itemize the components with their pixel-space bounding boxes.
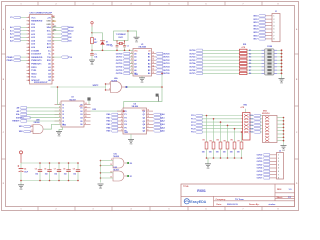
port A3 (CN1 left): [10, 36, 26, 39]
svg-text:RXD1: RXD1: [31, 67, 37, 69]
node reset rail junctions: [91, 49, 103, 51]
op-amp U4 labels: [124, 102, 146, 133]
port OUT23 (J2 pin 4): [257, 163, 279, 166]
svg-text:2: 2: [56, 209, 57, 211]
svg-text:18: 18: [153, 52, 155, 54]
port QA4 (U4 right): [153, 126, 165, 129]
svg-text:WR/TF: WR/TF: [93, 85, 100, 87]
resistor RN1-5: [240, 66, 262, 69]
wire node to diode top: [92, 33, 103, 41]
svg-text:OUT20: OUT20: [189, 50, 195, 52]
node reset-top junction: [91, 32, 93, 34]
svg-text:32: 32: [52, 44, 54, 46]
svg-text:22: 22: [52, 77, 54, 79]
net flag on loop: [156, 94, 159, 102]
svg-text:C6: C6: [44, 169, 46, 171]
svg-text:P6: P6: [124, 131, 126, 133]
svg-text:30: 30: [52, 50, 54, 52]
port PC0 (RN2-SW2): [249, 114, 262, 117]
port A0 (CN1 left): [10, 26, 26, 29]
svg-text:O0: O0: [80, 104, 83, 106]
svg-text:vindon: vindon: [269, 204, 277, 206]
port PWM0 (CN1 left): [7, 56, 27, 59]
svg-text:10: 10: [28, 47, 30, 49]
svg-text:OUT23: OUT23: [189, 60, 195, 62]
svg-text:R5: R5: [224, 141, 226, 143]
svg-text:4: 4: [131, 208, 132, 211]
port PC5 (RN2-SW2): [249, 131, 262, 134]
svg-text:OUT14: OUT14: [116, 66, 123, 69]
port OUT25 (J2 pin 6): [257, 170, 279, 173]
port OUT21 (J2 pin 2): [257, 157, 279, 160]
svg-text:RN1: RN1: [243, 44, 246, 46]
svg-text:1: 1: [28, 17, 29, 19]
port BUS7 (mid bus): [189, 72, 239, 75]
wire U2A output loop: [124, 87, 162, 111]
svg-text:GND: GND: [206, 168, 209, 170]
port A4 (CN1 left): [10, 39, 26, 42]
port SDA0 (CN1 right): [52, 26, 75, 29]
svg-text:RESERVED: RESERVED: [31, 57, 43, 59]
port OUT20 (J2 pin 1): [257, 154, 279, 157]
svg-text:9: 9: [28, 44, 29, 46]
svg-text:GND: GND: [90, 64, 93, 66]
switch SW1 rows: [262, 49, 282, 75]
port D1B6 (U1 right): [156, 72, 171, 75]
port PC1 (RN2-SW2): [249, 118, 262, 121]
port D1B0 (U1 right): [156, 52, 171, 55]
svg-text:PC1: PC1: [249, 119, 252, 121]
svg-text:PC0: PC0: [191, 115, 195, 117]
svg-text:23: 23: [52, 73, 54, 75]
connector CN1 pins: [27, 16, 55, 82]
svg-text:RESET: RESET: [12, 121, 19, 123]
svg-text:Company:: Company:: [216, 199, 226, 201]
port QA5 (U4 right): [153, 130, 165, 133]
svg-text:17: 17: [28, 70, 30, 72]
svg-text:13: 13: [85, 106, 87, 108]
svg-text:29: 29: [52, 54, 54, 56]
svg-text:Sheet:: Sheet:: [277, 196, 284, 199]
svg-text:B0: B0: [148, 53, 150, 55]
svg-text:OUT25: OUT25: [257, 171, 263, 173]
svg-text:K4: K4: [249, 59, 251, 62]
svg-text:Q3: Q3: [143, 121, 146, 123]
svg-text:PC5: PC5: [191, 132, 195, 134]
svg-text:U1: U1: [141, 44, 143, 46]
svg-text:OUT26: OUT26: [257, 174, 263, 176]
svg-text:7: 7: [243, 209, 244, 211]
port D1B1 (U1 right): [156, 56, 171, 59]
port IN14 (J1 pin 5): [253, 28, 274, 31]
svg-text:OUT21: OUT21: [257, 158, 263, 160]
port PA1 (U4 left): [106, 116, 117, 119]
port BUS6 (mid bus): [189, 69, 239, 72]
svg-text:OUT22: OUT22: [163, 60, 170, 62]
port QA3 (U4 right): [153, 123, 165, 126]
svg-text:PWM1: PWM1: [7, 60, 14, 62]
svg-text:SDA1: SDA1: [31, 72, 37, 75]
svg-text:PC1: PC1: [191, 119, 195, 121]
svg-text:C1: C1: [94, 54, 96, 56]
svg-text:SDA: SDA: [47, 26, 52, 29]
power flag (U3 top right): [87, 97, 90, 104]
svg-text:16: 16: [28, 67, 30, 69]
svg-text:4K7: 4K7: [94, 41, 97, 44]
port QA2 (U4 right): [153, 120, 165, 123]
gate U2A 74LS08: [106, 77, 127, 92]
svg-text:PC2: PC2: [249, 122, 252, 124]
svg-text:11: 11: [148, 120, 150, 122]
svg-text:P2: P2: [124, 118, 126, 120]
resistor network RN2 4.7K: [241, 104, 251, 140]
op-amp U1 labels: [134, 44, 150, 76]
svg-text:15: 15: [153, 62, 155, 64]
svg-text:I2: I2: [62, 111, 64, 113]
port TFR (above U2B): [19, 117, 61, 120]
svg-text:GND: GND: [57, 136, 60, 138]
svg-text:C8: C8: [63, 169, 65, 171]
svg-text:19: 19: [28, 77, 30, 79]
svg-text:20: 20: [28, 80, 30, 82]
svg-text:I1: I1: [62, 108, 64, 110]
node xtal caps on reset rail: [116, 49, 125, 51]
connector CN1 body: [30, 15, 53, 85]
title block Date and Drawn By: [217, 203, 277, 206]
port BUS3 (mid bus): [189, 59, 239, 62]
svg-text:GND: GND: [19, 189, 22, 191]
port OUT16 (U1 left): [116, 72, 133, 75]
svg-text:74LS07: 74LS07: [69, 98, 76, 101]
svg-text:P1: P1: [124, 114, 126, 116]
node U4 pin1 junction: [123, 110, 125, 112]
wire VCC to node: [91, 27, 93, 33]
svg-text:SCL0: SCL0: [68, 30, 74, 32]
svg-text:B2: B2: [148, 60, 150, 62]
svg-text:P0: P0: [124, 111, 126, 113]
connector CN1 label CN1 CONNECTOR: [30, 12, 53, 14]
svg-text:10: 10: [110, 164, 112, 166]
svg-text:RESERVED: RESERVED: [31, 21, 43, 23]
svg-text:K2: K2: [249, 53, 251, 55]
resistor R7 10K (pull): [237, 131, 243, 158]
resistor R3 10K (pull): [209, 118, 215, 158]
svg-text:13: 13: [153, 69, 155, 71]
svg-text:OUT21: OUT21: [163, 57, 170, 59]
svg-text:D1: D1: [130, 176, 132, 178]
port PA4 (U4 left): [106, 126, 117, 129]
svg-text:74LS245: 74LS245: [138, 46, 146, 49]
svg-text:3: 3: [28, 24, 29, 26]
svg-text:R1: R1: [94, 39, 96, 41]
port IN11 (J1 pin 2): [253, 18, 274, 21]
svg-text:P5: P5: [124, 127, 126, 129]
svg-text:3: 3: [93, 4, 94, 6]
svg-text:REV:: REV:: [277, 189, 282, 191]
port PWM1 (CN1 left): [7, 59, 27, 62]
svg-text:I6: I6: [62, 124, 64, 126]
sheet border inner: [6, 6, 295, 207]
capacitor C9 104 (decoupling): [73, 162, 81, 181]
svg-text:B6: B6: [148, 73, 150, 75]
svg-text:16: 16: [153, 59, 155, 61]
svg-text:12: 12: [153, 72, 155, 74]
svg-text:J1: J1: [275, 11, 277, 13]
op-amp U4 pins: [117, 109, 153, 133]
svg-text:1: 1: [21, 209, 22, 211]
svg-text:OUT26: OUT26: [189, 70, 195, 72]
svg-text:GND: GND: [99, 188, 102, 190]
diode D1 1N4148: [100, 41, 112, 51]
port D1B4 (U1 right): [156, 66, 171, 69]
svg-text:SW2: SW2: [263, 110, 267, 112]
switch SW1 DIP-8 labels: [267, 46, 272, 48]
port IN10 (J1 pin 1): [253, 15, 274, 18]
svg-text:OUT11: OUT11: [116, 57, 123, 59]
svg-text:C4: C4: [24, 167, 26, 170]
title block REV: [277, 189, 292, 191]
svg-text:C3: C3: [127, 45, 129, 47]
gate U2C 74LS08: [101, 153, 133, 168]
svg-text:6: 6: [206, 209, 207, 211]
svg-text:27: 27: [52, 60, 54, 62]
op-amp U4 74LS06 body: [123, 108, 147, 134]
op-amp U3 74LS07 body: [61, 101, 84, 127]
port PA2 (U4 left): [106, 120, 117, 123]
svg-text:OUT27: OUT27: [257, 178, 263, 180]
ground (pull rail): [205, 158, 211, 170]
svg-text:O6: O6: [80, 124, 83, 126]
wire oscillator to ground: [128, 31, 137, 37]
resistor R6 10K (pull): [230, 128, 236, 158]
svg-text:24: 24: [52, 69, 54, 72]
svg-text:J2: J2: [279, 150, 281, 152]
capacitor C6 104 (decoupling): [44, 162, 52, 181]
svg-text:1: 1: [21, 4, 22, 6]
capacitor C2 (xtal left): [111, 44, 119, 51]
svg-text:K7: K7: [249, 70, 251, 72]
resistor RN1-6: [240, 69, 262, 72]
svg-text:B1: B1: [148, 57, 150, 59]
port OUT13 (U1 left): [116, 62, 133, 65]
svg-text:D0: D0: [130, 163, 132, 165]
svg-text:14: 14: [28, 59, 30, 62]
svg-text:3: 3: [93, 209, 94, 211]
port OUT14 (U1 left): [116, 66, 133, 69]
svg-text:GND: GND: [129, 144, 132, 146]
svg-text:18: 18: [28, 73, 30, 75]
logo EasyEDA: [184, 199, 206, 205]
svg-text:I0: I0: [62, 104, 64, 106]
svg-text:GND: GND: [140, 82, 143, 84]
svg-text:RX01: RX01: [197, 189, 206, 193]
svg-text:K6: K6: [249, 66, 251, 68]
op-amp U1 pins: [130, 52, 157, 75]
svg-text:OUT24: OUT24: [189, 62, 195, 65]
svg-text:I5: I5: [62, 121, 64, 123]
svg-text:VCC: VCC: [31, 17, 36, 19]
port IO4 (left edge): [16, 113, 61, 116]
ground (U3): [56, 127, 63, 138]
svg-text:SW DIP-8: SW DIP-8: [262, 113, 270, 115]
svg-text:8: 8: [278, 209, 279, 211]
svg-text:GND: GND: [135, 41, 138, 43]
ground (oscillator): [134, 37, 140, 43]
svg-text:PC3: PC3: [191, 125, 195, 127]
svg-text:21: 21: [52, 80, 54, 82]
port X1 (pin1 left): [10, 16, 26, 19]
port PC4 (pull block): [191, 127, 243, 130]
svg-text:74LS08: 74LS08: [34, 121, 40, 124]
svg-text:10: 10: [85, 116, 87, 118]
ground (U4): [128, 134, 134, 146]
svg-text:5: 5: [169, 209, 170, 211]
svg-text:6: 6: [28, 34, 29, 36]
svg-text:C9: C9: [73, 169, 75, 171]
svg-text:D-: D-: [49, 54, 51, 56]
svg-text:Q0: Q0: [143, 111, 146, 113]
port QA1 (U4 right): [153, 116, 165, 119]
capacitor C5 104 (decoupling): [35, 162, 43, 181]
svg-text:R3: R3: [210, 141, 212, 143]
svg-text:OUT12: OUT12: [116, 60, 123, 62]
port BUS2 (mid bus): [189, 56, 239, 59]
port PA0 (U4 left): [106, 113, 117, 116]
svg-text:4: 4: [28, 26, 29, 29]
port OUT27 (J2 pin 8): [257, 177, 279, 180]
power flag +3V3 (CN1 pin39): [52, 21, 56, 23]
svg-text:O3: O3: [80, 114, 83, 116]
port PC3 (pull block): [191, 124, 243, 127]
svg-text:PWMOUT0: PWMOUT0: [31, 60, 42, 62]
svg-text:GND: GND: [46, 24, 51, 26]
svg-text:DW: DW: [93, 109, 96, 111]
svg-text:12: 12: [85, 110, 87, 112]
svg-text:10: 10: [148, 123, 150, 125]
port IN16 (J1 pin 7): [253, 34, 274, 37]
port D1B2 (U1 right): [156, 59, 171, 62]
svg-text:CN1 CONNECTOR-20P: CN1 CONNECTOR-20P: [30, 12, 53, 14]
svg-text:R6: R6: [231, 140, 233, 142]
svg-text:Q6: Q6: [143, 131, 146, 133]
svg-text:K8: K8: [249, 73, 251, 75]
svg-text:13: 13: [28, 57, 30, 59]
svg-text:74LS08: 74LS08: [113, 155, 119, 158]
port BUS0 (mid bus): [189, 49, 239, 52]
svg-text:2: 2: [28, 21, 29, 23]
svg-text:13: 13: [148, 113, 150, 115]
svg-text:O2: O2: [80, 111, 83, 113]
wire reset rail: [92, 49, 133, 51]
svg-text:I3: I3: [62, 114, 64, 116]
svg-text:SPKIN SPKOUT: SPKIN SPKOUT: [34, 82, 48, 84]
svg-text:C7: C7: [54, 169, 56, 171]
port SCL0 (CN1 right): [52, 29, 74, 32]
wire WR to U3 pin1: [57, 86, 61, 104]
port PC5 (pull block): [191, 131, 243, 134]
op-amp U3 pins: [55, 102, 91, 126]
wire DW net: [91, 109, 124, 111]
svg-text:OUT21: OUT21: [189, 53, 195, 55]
port WR1 (U2B input A): [19, 125, 30, 128]
svg-text:Q5: Q5: [143, 127, 146, 129]
svg-text:PWM0: PWM0: [7, 57, 14, 59]
svg-text:38: 38: [52, 24, 54, 26]
port BUS1 (mid bus): [189, 52, 239, 55]
svg-text:PC0: PC0: [249, 115, 252, 117]
connector CN1 bottom label SPKOUT: [34, 82, 48, 84]
port IO3 (CN1 right): [52, 39, 72, 42]
port PC2 (pull block): [191, 121, 243, 124]
port WR2 (U2B input B): [19, 130, 30, 133]
svg-text:5: 5: [28, 30, 29, 32]
ground (power rail): [18, 180, 24, 191]
svg-text:A1: A1: [134, 56, 136, 59]
svg-text:6: 6: [206, 4, 207, 6]
wire reset rail to U1 pin1: [128, 50, 133, 51]
port IN17 (J1 pin 8): [253, 38, 274, 41]
wire gate input bus: [100, 160, 102, 183]
port OUT24 (J2 pin 5): [257, 167, 279, 170]
port IO1 (CN1 right): [52, 33, 72, 36]
svg-text:D11/AOUT: D11/AOUT: [31, 53, 42, 56]
svg-text:R7: R7: [238, 141, 240, 143]
gate U2D 74LS08: [101, 167, 133, 181]
svg-text:OUT10: OUT10: [116, 53, 123, 55]
resistor RN1-4: [240, 62, 262, 65]
capacitor C8 104 (decoupling): [63, 162, 70, 181]
svg-text:PC5: PC5: [249, 132, 252, 134]
ground (gate bus): [98, 184, 104, 190]
wire WR net: [51, 85, 106, 87]
svg-text:12: 12: [148, 116, 150, 118]
wire bottom power rail: [21, 180, 79, 182]
svg-text:WR1: WR1: [19, 126, 23, 128]
svg-text:OUT23: OUT23: [257, 164, 263, 166]
oscillator Y1 module box: [114, 31, 129, 41]
resistor RN1-7: [240, 72, 262, 75]
resistor R5 10K (pull): [223, 125, 229, 158]
svg-text:OUT20: OUT20: [163, 53, 170, 55]
power flag VCC (reset circuit): [91, 22, 93, 33]
op-amp U1 74LS245 body: [133, 49, 152, 77]
svg-text:SCL1: SCL1: [31, 77, 37, 79]
svg-text:D10/AIN: D10/AIN: [31, 49, 39, 52]
svg-text:20: 20: [148, 50, 150, 52]
port OUT10 (U1 left): [116, 52, 133, 55]
svg-text:OUT16: OUT16: [116, 73, 123, 75]
port PA5 (U4 left): [106, 130, 117, 133]
svg-text:OUT24: OUT24: [163, 66, 170, 69]
svg-text:OSC1: OSC1: [118, 37, 123, 39]
svg-text:OUT26: OUT26: [163, 73, 170, 75]
port IN15 (J1 pin 6): [253, 31, 274, 34]
svg-text:OUT20: OUT20: [257, 155, 263, 157]
svg-text:PWMOUT1: PWMOUT1: [31, 64, 42, 66]
svg-text:74LS08: 74LS08: [111, 79, 117, 82]
svg-text:D1: D1: [106, 42, 108, 44]
svg-text:Date:: Date:: [217, 203, 223, 206]
capacitor C4 10uF electrolytic: [18, 163, 28, 181]
svg-text:A3: A3: [134, 62, 136, 65]
svg-text:7: 7: [28, 37, 29, 39]
svg-text:OUT15: OUT15: [116, 70, 123, 72]
title block frame: [181, 184, 295, 207]
port IN12 (J1 pin 3): [253, 21, 274, 24]
port PC3 (RN2-SW2): [249, 124, 262, 127]
ground (SW2 common): [281, 146, 287, 152]
port RESET (left edge): [12, 120, 61, 123]
